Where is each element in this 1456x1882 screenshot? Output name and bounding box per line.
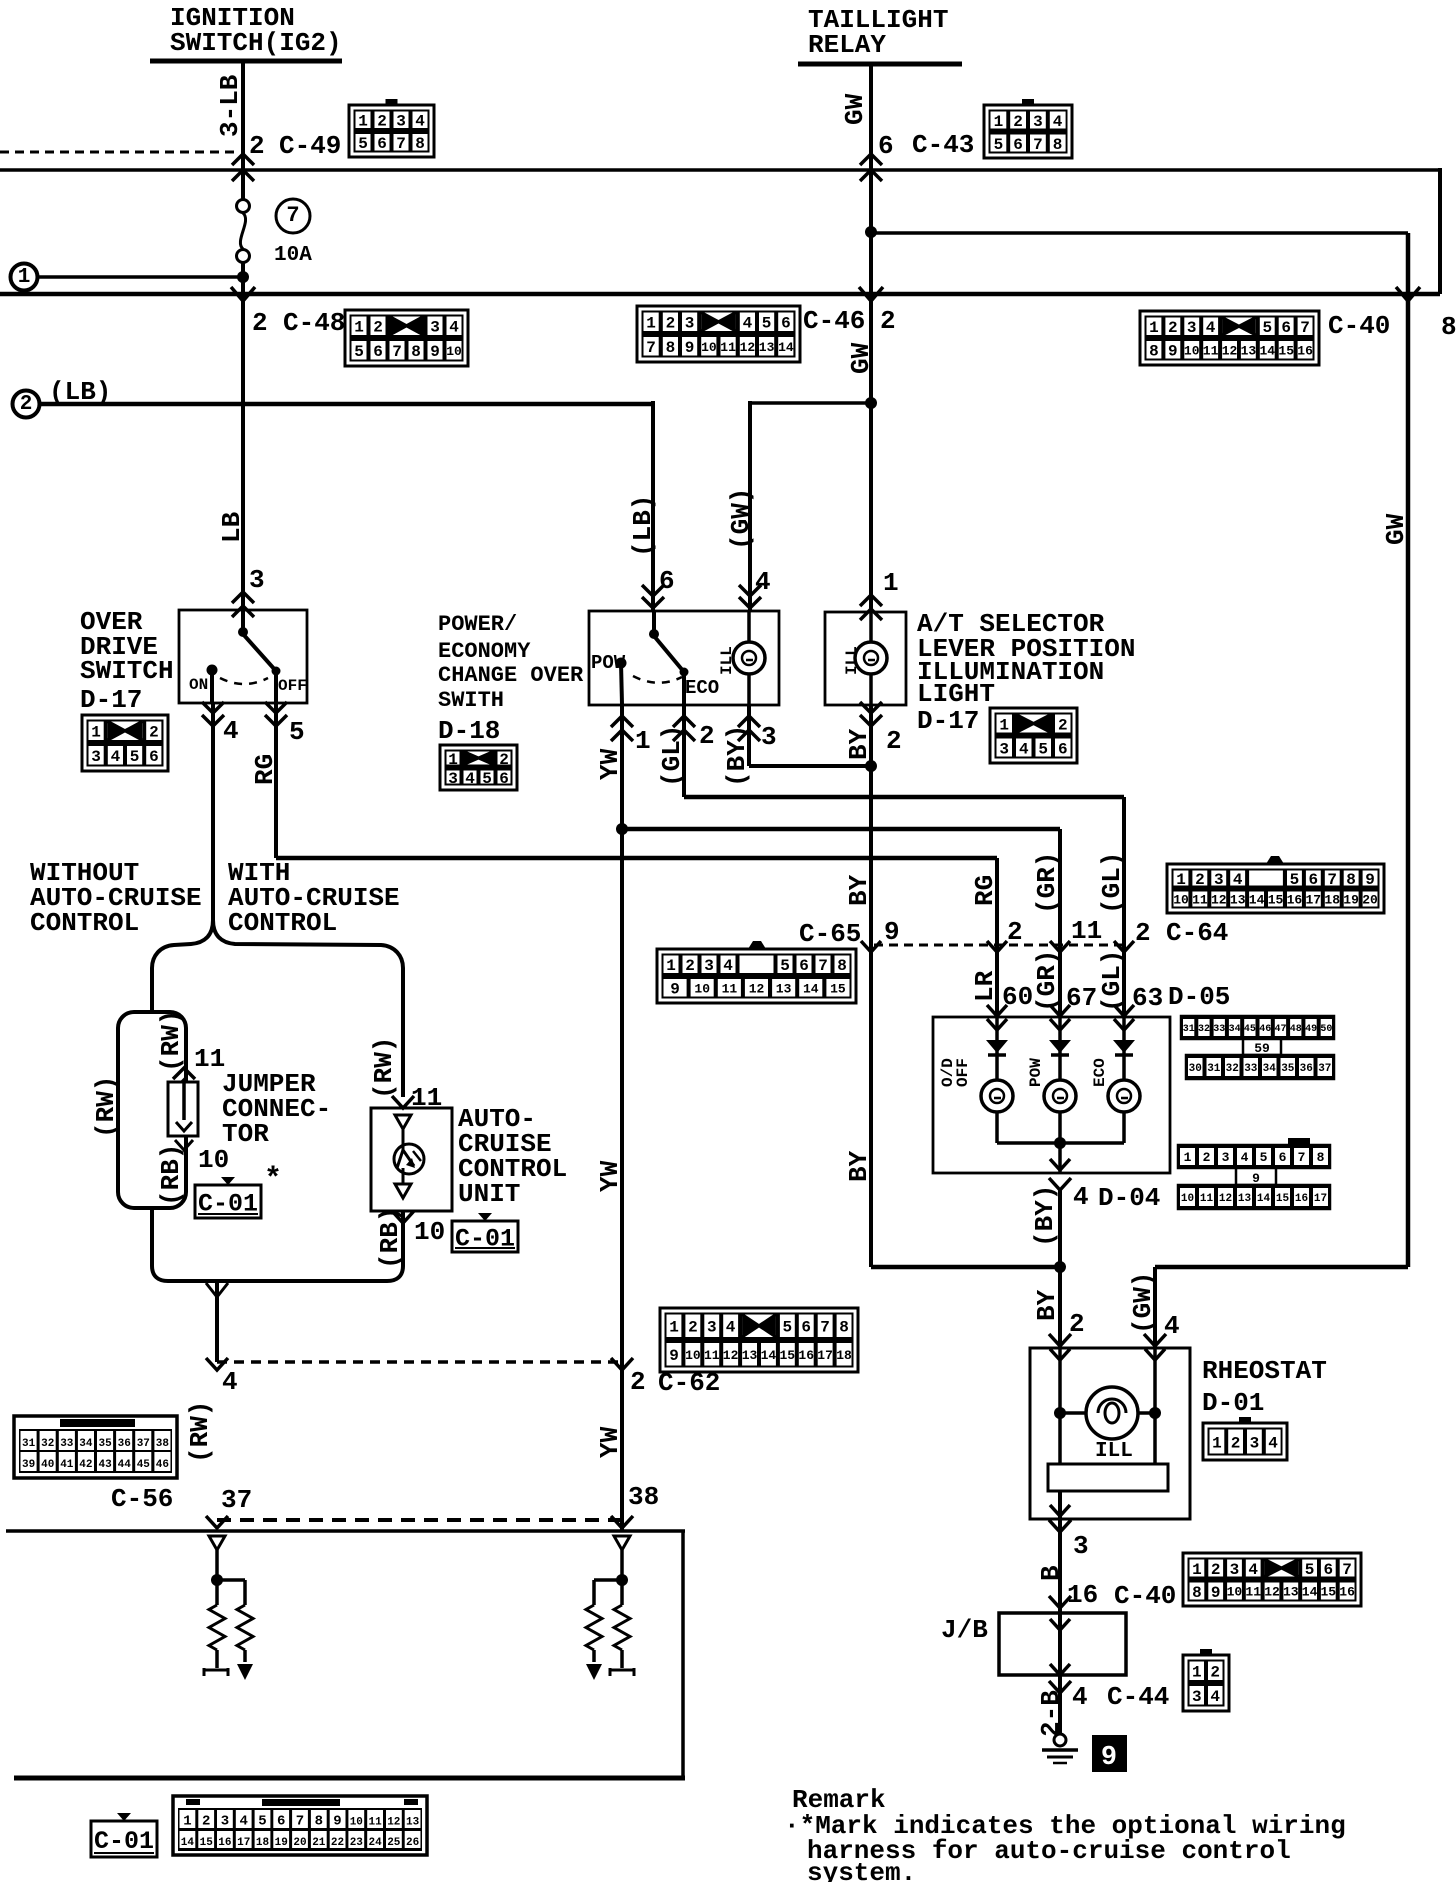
svg-text:14: 14 [803, 981, 819, 996]
svg-text:1: 1 [448, 751, 458, 769]
svg-text:1: 1 [883, 568, 899, 598]
svg-text:C-43: C-43 [912, 130, 974, 160]
arrow 4 C-44 [1049, 1681, 1071, 1693]
svg-text:10: 10 [1173, 893, 1189, 908]
wire RG down [274, 702, 278, 858]
svg-text:4: 4 [222, 1367, 238, 1397]
svg-text:C-48: C-48 [283, 308, 345, 338]
svg-text:(GL): (GL) [657, 725, 687, 787]
wire BY down [869, 705, 873, 1267]
svg-text:8: 8 [411, 343, 421, 361]
svg-text:9: 9 [685, 339, 695, 357]
svg-text:34: 34 [1229, 1024, 1241, 1035]
svg-text:(RW): (RW) [91, 1076, 121, 1138]
rail line 2 [0, 292, 1440, 297]
svg-text:38: 38 [628, 1482, 659, 1512]
svg-text:11: 11 [1203, 343, 1219, 358]
svg-text:11: 11 [704, 1348, 720, 1363]
svg-text:5: 5 [482, 770, 492, 788]
svg-text:15: 15 [1276, 1193, 1290, 1205]
svg-text:(RW): (RW) [185, 1401, 215, 1463]
svg-text:37: 37 [1318, 1063, 1331, 1075]
svg-text:31: 31 [22, 1438, 36, 1450]
svg-text:5: 5 [762, 315, 772, 333]
connector C-43 [984, 99, 1072, 158]
svg-text:11: 11 [1192, 893, 1208, 908]
svg-text:4: 4 [1268, 1434, 1278, 1452]
svg-text:14: 14 [1259, 343, 1275, 358]
arrow 4 D-04 [1049, 1178, 1071, 1190]
dashed rail top left [0, 151, 237, 154]
wire from ON contact [210, 670, 214, 702]
svg-text:6: 6 [1308, 871, 1318, 889]
svg-text:16: 16 [798, 1348, 814, 1363]
svg-text:1: 1 [1149, 319, 1159, 337]
svg-text:6: 6 [149, 748, 159, 766]
svg-text:26: 26 [406, 1837, 419, 1849]
svg-text:UNIT: UNIT [458, 1179, 520, 1209]
dashed line C-62 [217, 1360, 622, 1364]
svg-text:11: 11 [720, 340, 736, 355]
connector D-18 [440, 745, 517, 790]
svg-text:11: 11 [1071, 916, 1102, 946]
svg-text:2: 2 [1210, 1664, 1220, 1682]
ground arrow [237, 1664, 253, 1680]
svg-text:37: 37 [221, 1485, 252, 1515]
svg-text:2: 2 [699, 721, 715, 751]
chevron in jumper [176, 1122, 192, 1131]
svg-text:8: 8 [666, 339, 676, 357]
svg-text:2: 2 [685, 957, 695, 975]
connector D-17 right [990, 708, 1077, 763]
dashed line 37-38 [217, 1518, 622, 1522]
svg-text:18: 18 [836, 1348, 852, 1363]
wire BY horizontal to rheostat [871, 1265, 1060, 1270]
svg-text:8: 8 [315, 1814, 323, 1830]
wire GW to right [871, 231, 1408, 235]
svg-text:C-56: C-56 [111, 1484, 173, 1514]
svg-text:20: 20 [293, 1837, 306, 1849]
svg-text:9: 9 [670, 981, 680, 999]
svg-text:9: 9 [669, 1347, 679, 1365]
svg-text:35: 35 [98, 1438, 112, 1450]
svg-text:D-05: D-05 [1168, 982, 1230, 1012]
svg-text:1: 1 [358, 113, 368, 131]
svg-text:5: 5 [1038, 740, 1048, 758]
svg-text:(BY): (BY) [722, 725, 752, 787]
svg-text:POW: POW [1027, 1058, 1045, 1087]
svg-text:34: 34 [1263, 1063, 1277, 1075]
svg-text:14: 14 [1257, 1193, 1271, 1205]
svg-text:5: 5 [1260, 1150, 1268, 1165]
connector C-44 [1183, 1649, 1229, 1711]
connector D-05 upper [1181, 1016, 1334, 1039]
svg-text:24: 24 [368, 1837, 382, 1849]
resistor left a [209, 1605, 225, 1650]
jumper connector JUMPER CONNECTOR [168, 1082, 198, 1136]
wire B [1058, 1553, 1062, 1613]
arrow 16 C-40 [1049, 1596, 1071, 1608]
node 1 circle [11, 264, 38, 291]
svg-text:17: 17 [1305, 893, 1321, 908]
arrow C-46 [859, 287, 883, 301]
merge wire [152, 1208, 403, 1281]
svg-text:CHANGE OVER: CHANGE OVER [438, 663, 584, 688]
svg-text:3: 3 [1222, 1150, 1230, 1165]
svg-text:8: 8 [1346, 871, 1356, 889]
svg-text:J/B: J/B [941, 1615, 988, 1645]
connector C-01 ref box 2 [452, 1213, 518, 1254]
svg-text:16: 16 [218, 1837, 231, 1849]
svg-text:8: 8 [1192, 1584, 1202, 1602]
dashed connector line C-65/C-64 [874, 944, 1124, 947]
svg-text:31: 31 [1183, 1024, 1195, 1035]
svg-text:3: 3 [249, 565, 265, 595]
svg-text:C-40: C-40 [1114, 1581, 1176, 1611]
svg-text:2: 2 [1231, 1434, 1241, 1452]
branch [217, 1578, 245, 1582]
wire (LB) down to pin 6 [651, 401, 655, 610]
svg-text:17: 17 [817, 1348, 833, 1363]
svg-text:4: 4 [449, 319, 459, 337]
wire (GL) down [1122, 797, 1126, 1017]
svg-text:5: 5 [258, 1814, 266, 1830]
svg-text:13: 13 [1241, 343, 1257, 358]
junction [1054, 1261, 1066, 1273]
svg-text:2: 2 [1013, 113, 1023, 131]
svg-text:6: 6 [878, 131, 894, 161]
svg-text:3: 3 [1187, 319, 1197, 337]
svg-text:2: 2 [688, 1319, 698, 1337]
wire (GL) [682, 704, 686, 797]
arrow into D-05 at 1124 [1114, 1005, 1134, 1016]
svg-text:5: 5 [1290, 871, 1300, 889]
arrow pin 4 [739, 585, 761, 596]
svg-text:5: 5 [289, 717, 305, 747]
wire 3-LB from ignition switch [241, 61, 245, 200]
wire (GW) branch [750, 401, 871, 405]
svg-text:3: 3 [1073, 1531, 1089, 1561]
svg-text:C-01: C-01 [94, 1827, 154, 1856]
svg-text:6: 6 [499, 770, 509, 788]
jumper connector loop [118, 1012, 186, 1208]
svg-text:16: 16 [1287, 893, 1303, 908]
wire from ECO contact [682, 672, 686, 704]
svg-text:3: 3 [761, 722, 777, 752]
ECU box [6, 1529, 685, 1533]
svg-text:(GW): (GW) [726, 488, 756, 550]
arrow pin 2 [673, 716, 695, 727]
svg-text:2: 2 [630, 1367, 646, 1397]
svg-text:1: 1 [1192, 1664, 1202, 1682]
svg-text:3: 3 [221, 1814, 229, 1830]
wire (GR) horizontal [622, 827, 1060, 832]
wire through J/B [1058, 1613, 1062, 1675]
svg-text:2: 2 [886, 726, 902, 756]
svg-text:6: 6 [801, 1319, 811, 1337]
svg-text:GW: GW [846, 342, 876, 374]
svg-text:2: 2 [252, 308, 268, 338]
terminal bar [610, 1668, 634, 1676]
svg-text:12: 12 [749, 981, 765, 996]
input triangle left [209, 1536, 225, 1550]
svg-text:6: 6 [781, 315, 791, 333]
svg-text:2: 2 [1168, 319, 1178, 337]
svg-text:5: 5 [780, 957, 790, 975]
svg-text:22: 22 [331, 1837, 344, 1849]
node 2 circle [13, 391, 40, 418]
svg-text:6: 6 [1013, 136, 1023, 154]
dashed arc [633, 676, 682, 683]
svg-text:42: 42 [79, 1459, 92, 1471]
over drive switch D-17 box [179, 610, 307, 703]
wire (BY) [747, 704, 751, 766]
svg-text:33: 33 [1213, 1024, 1225, 1035]
svg-text:67: 67 [1066, 983, 1097, 1013]
svg-text:4: 4 [1073, 1182, 1089, 1212]
wire from node 1 [37, 275, 243, 279]
junction BY [865, 760, 877, 772]
svg-text:2: 2 [249, 131, 265, 161]
arrow into D-05 at 997 [987, 1005, 1007, 1016]
arrow into C-48 [231, 287, 255, 301]
svg-text:39: 39 [22, 1459, 35, 1471]
svg-text:9: 9 [1365, 871, 1375, 889]
svg-text:C-49: C-49 [279, 131, 341, 161]
svg-text:1: 1 [669, 1319, 679, 1337]
svg-text:9: 9 [430, 343, 440, 361]
wire [241, 262, 245, 294]
svg-text:1: 1 [1184, 1150, 1192, 1165]
svg-text:9: 9 [1101, 1743, 1117, 1773]
svg-text:7: 7 [820, 1319, 830, 1337]
svg-text:15: 15 [200, 1837, 214, 1849]
svg-text:14: 14 [181, 1837, 195, 1849]
POW contact [616, 658, 627, 669]
ground ref 9 [1092, 1735, 1127, 1772]
svg-text:18: 18 [1324, 893, 1340, 908]
svg-text:3: 3 [91, 748, 101, 766]
wire YW long vertical [620, 704, 624, 1532]
svg-text:11: 11 [194, 1044, 225, 1074]
svg-text:49: 49 [1305, 1024, 1317, 1035]
svg-text:9: 9 [1168, 343, 1178, 361]
svg-text:RG: RG [970, 875, 1000, 906]
merge junction [206, 1283, 228, 1297]
svg-text:RHEOSTAT: RHEOSTAT [1202, 1356, 1327, 1386]
wire (GR) down [1058, 829, 1062, 1017]
svg-text:7: 7 [286, 203, 299, 228]
arrow pin 1 [611, 716, 633, 727]
svg-text:8: 8 [837, 957, 847, 975]
svg-text:SWITCH: SWITCH [80, 656, 174, 686]
svg-text:16: 16 [1297, 343, 1313, 358]
svg-text:C-65: C-65 [799, 919, 861, 949]
svg-text:2: 2 [1211, 1561, 1221, 1579]
connector D-05 lower [1288, 1138, 1310, 1147]
rheostat lamp [1060, 1411, 1155, 1415]
svg-text:(GR): (GR) [1032, 852, 1062, 914]
connector C-56 [14, 1416, 177, 1478]
svg-text:4: 4 [1248, 1561, 1258, 1579]
svg-text:63: 63 [1132, 983, 1163, 1013]
arrow pin 1 A/T [860, 595, 882, 606]
resistor left b [237, 1605, 253, 1650]
arrow 2 [987, 941, 1007, 952]
svg-text:5: 5 [358, 135, 368, 153]
svg-text:32: 32 [1198, 1024, 1210, 1035]
svg-text:44: 44 [118, 1459, 132, 1471]
resistor right b [614, 1605, 630, 1650]
svg-text:5: 5 [354, 343, 364, 361]
svg-text:10: 10 [685, 1348, 701, 1363]
wire out of rheostat [1058, 1491, 1062, 1553]
svg-text:ILL: ILL [718, 646, 736, 675]
svg-text:46: 46 [1259, 1024, 1271, 1035]
svg-text:6: 6 [799, 957, 809, 975]
svg-text:18: 18 [256, 1837, 270, 1849]
svg-text:ILL: ILL [1095, 1440, 1133, 1463]
svg-text:ILL: ILL [843, 646, 861, 675]
svg-text:7: 7 [1300, 319, 1310, 337]
svg-text:4: 4 [1053, 113, 1063, 131]
svg-text:33: 33 [1244, 1063, 1258, 1075]
wire 2-B [1058, 1675, 1062, 1734]
wire LR down [995, 858, 999, 1017]
svg-text:11: 11 [368, 1817, 382, 1829]
svg-text:5: 5 [130, 748, 140, 766]
svg-text:10: 10 [1184, 343, 1200, 358]
svg-text:OFF: OFF [278, 677, 307, 695]
arrow 38 [611, 1516, 633, 1528]
svg-text:1: 1 [666, 957, 676, 975]
svg-text:OFF: OFF [954, 1058, 972, 1087]
arrow pin 2 A/T [860, 702, 882, 713]
svg-text:9: 9 [1211, 1584, 1221, 1602]
svg-text:13: 13 [759, 340, 775, 355]
svg-text:GW: GW [840, 93, 870, 125]
svg-text:1: 1 [646, 315, 656, 333]
svg-text:19: 19 [1343, 893, 1359, 908]
wire [620, 1550, 624, 1578]
brace right branch [213, 920, 403, 1097]
connector D-17 left [82, 715, 168, 771]
A/T selector illumination light box [825, 612, 906, 705]
svg-text:C-46: C-46 [803, 306, 865, 336]
svg-text:21: 21 [312, 1837, 326, 1849]
svg-text:(RW): (RW) [369, 1037, 399, 1099]
arrow pin 10 ACU [392, 1211, 414, 1223]
svg-text:1: 1 [1192, 1561, 1202, 1579]
arrow into ACU [392, 1096, 414, 1108]
svg-text:14: 14 [1249, 893, 1265, 908]
junction [237, 271, 249, 283]
ground symbol [1054, 1734, 1066, 1746]
svg-text:3: 3 [999, 740, 1009, 758]
svg-text:8: 8 [1317, 1150, 1325, 1165]
svg-text:10: 10 [446, 344, 462, 359]
svg-text:14: 14 [1302, 1585, 1318, 1600]
ground arrow [586, 1664, 602, 1680]
switch blade overdrive [241, 610, 245, 632]
svg-text:12: 12 [1211, 893, 1227, 908]
wire in rheostat left [1058, 1348, 1062, 1464]
svg-text:2: 2 [202, 1814, 210, 1830]
svg-text:3: 3 [430, 319, 440, 337]
dashed arc [220, 678, 268, 684]
svg-text:2: 2 [373, 319, 383, 337]
wire (LB) horizontal [39, 402, 653, 407]
svg-text:14: 14 [778, 340, 794, 355]
svg-text:12: 12 [740, 340, 756, 355]
transistor symbol in ACU [395, 1115, 411, 1129]
wire GW horizontal to rheostat [1155, 1265, 1408, 1270]
wire GW right vertical [1406, 233, 1411, 1267]
svg-text:4: 4 [1206, 319, 1216, 337]
svg-text:33: 33 [60, 1438, 74, 1450]
svg-text:(GW): (GW) [1128, 1272, 1158, 1334]
svg-text:34: 34 [79, 1438, 93, 1450]
svg-text:6: 6 [659, 566, 675, 596]
arrow 11 [1050, 941, 1070, 952]
fuse symbol [237, 200, 250, 213]
svg-text:3: 3 [1250, 1434, 1260, 1452]
arrow pin 5 [265, 702, 287, 713]
svg-text:C-44: C-44 [1107, 1682, 1169, 1712]
connector C-65 [657, 941, 856, 1003]
connector C-01 [173, 1796, 427, 1855]
O/D OFF lamp branch [995, 1017, 999, 1080]
arrow 4 [206, 1358, 228, 1370]
svg-text:7: 7 [646, 339, 656, 357]
terminal bar [204, 1668, 228, 1676]
junction GW [865, 226, 877, 238]
arrow pin 3 [738, 716, 760, 727]
svg-text:12: 12 [387, 1817, 400, 1829]
svg-text:2: 2 [880, 306, 896, 336]
svg-text:36: 36 [118, 1438, 131, 1450]
svg-text:D-04: D-04 [1098, 1183, 1160, 1213]
svg-text:2: 2 [377, 113, 387, 131]
svg-text:CONTROL: CONTROL [30, 908, 139, 938]
svg-text:41: 41 [60, 1459, 74, 1471]
bar under taillight relay [798, 62, 962, 67]
wire RG horizontal [276, 856, 997, 861]
bar under ignition switch [150, 59, 342, 64]
ECO lamp branch [1122, 1017, 1126, 1080]
wire in rheostat right [1153, 1348, 1157, 1464]
svg-text:4: 4 [755, 567, 771, 597]
chevron below jumper [175, 1140, 193, 1150]
wire (GW) down [1153, 1267, 1157, 1348]
svg-text:45: 45 [137, 1459, 151, 1471]
svg-text:3-LB: 3-LB [215, 74, 245, 137]
J/B junction block box [999, 1613, 1126, 1675]
svg-text:47: 47 [1274, 1024, 1286, 1035]
svg-text:37: 37 [137, 1438, 150, 1450]
wire from OFF contact [274, 671, 278, 702]
svg-text:POWER/: POWER/ [438, 612, 517, 637]
wire (RW) to C-62 line [215, 1281, 219, 1362]
svg-text:9: 9 [884, 917, 900, 947]
svg-text:3: 3 [707, 1319, 717, 1337]
svg-text:19: 19 [275, 1837, 288, 1849]
svg-text:12: 12 [1222, 343, 1238, 358]
svg-text:2: 2 [1007, 917, 1023, 947]
svg-text:6: 6 [373, 343, 383, 361]
svg-text:4: 4 [1019, 740, 1029, 758]
ON contact [207, 665, 218, 676]
